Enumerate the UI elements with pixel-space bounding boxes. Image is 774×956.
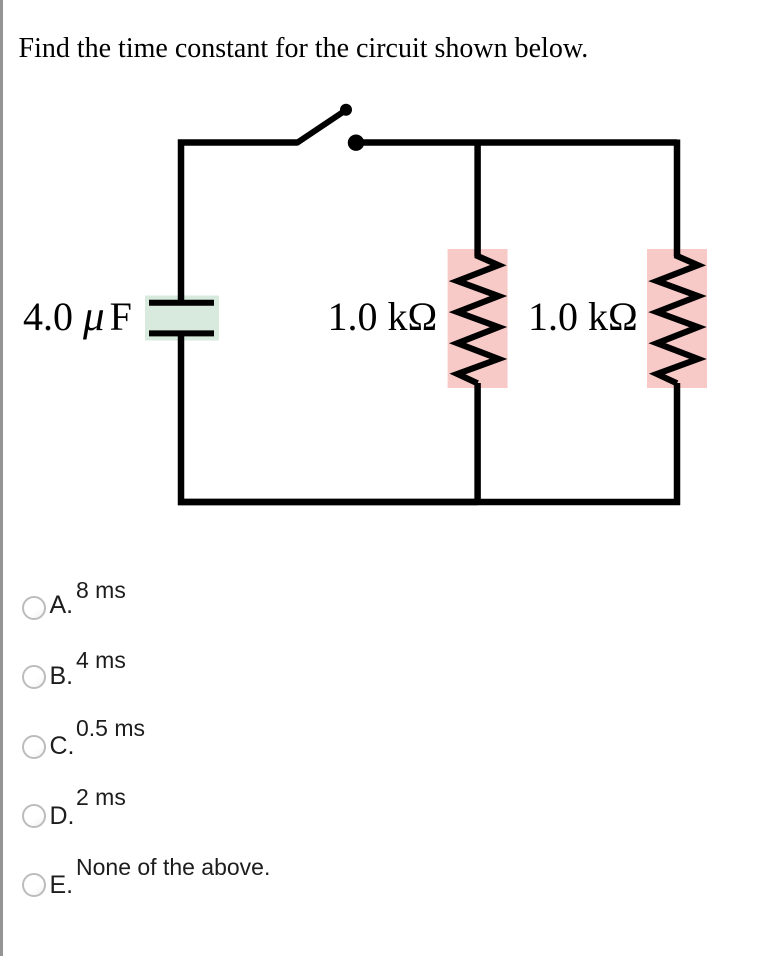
resistor R2 highlight: [647, 249, 707, 388]
capacitor C1 top plate: [149, 300, 214, 306]
option E letter: [50, 871, 74, 900]
option E answer text: [76, 854, 270, 881]
option C radio: [22, 735, 46, 759]
capacitor C1 bottom plate: [149, 330, 214, 336]
option D answer text: [76, 784, 126, 811]
resistor R1 highlight: [448, 249, 508, 388]
wire: right vertical from R2 down to bottom-right corner: [674, 383, 681, 505]
svg-text:4.0 μF: 4.0 μF: [23, 293, 132, 340]
svg-text:1.0 kΩ: 1.0 kΩ: [528, 294, 638, 339]
switch S1 lever: [296, 110, 346, 144]
svg-text:1.0 kΩ: 1.0 kΩ: [328, 294, 438, 339]
question title: [19, 33, 589, 65]
wire: top horizontal from switch contact to top-right corner: [360, 139, 677, 146]
option E radio: [22, 873, 46, 897]
option D radio: [22, 804, 46, 828]
switch S1 lever-end dot: [340, 104, 352, 116]
wire: right vertical from top-right corner down to R2: [674, 140, 681, 257]
wire: left vertical from capacitor to bottom-left corner: [181, 334, 478, 502]
option B answer text: [76, 647, 126, 674]
option D letter: [50, 802, 75, 831]
resistor R1 zigzag: [458, 255, 499, 383]
option C letter: [50, 732, 75, 761]
resistor R2 zigzag: [657, 255, 698, 383]
option A radio: [22, 596, 46, 620]
wire: left vertical top + top-left horizontal to switch hinge: [181, 143, 297, 304]
option C answer text: [76, 715, 145, 742]
left page border bar: [0, 0, 3, 956]
option A letter: [50, 591, 74, 620]
capacitor C1 highlight: [145, 296, 219, 341]
option B letter: [50, 662, 74, 691]
switch S1 contact dot: [348, 135, 364, 151]
wire: bottom horizontal: [178, 499, 680, 506]
option A answer text: [76, 577, 126, 604]
wire: middle vertical from R1 down to bottom wire: [474, 383, 481, 505]
option B radio: [22, 665, 46, 689]
wire: middle vertical from top wire down to R1: [474, 140, 481, 257]
